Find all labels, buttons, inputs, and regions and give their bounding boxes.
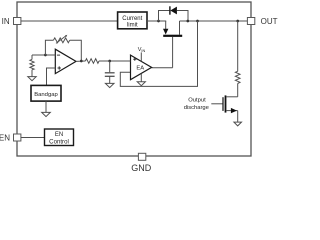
svg-text:EN: EN bbox=[0, 134, 10, 143]
label Output discharge bbox=[184, 98, 209, 111]
ground at Q2 bbox=[234, 122, 242, 126]
svg-text:Bandgap: Bandgap bbox=[34, 92, 58, 98]
wire U1 non-inverting input from bandgap bbox=[47, 68, 56, 85]
svg-text:discharge: discharge bbox=[184, 105, 209, 111]
wire Q2 source to ground bbox=[237, 111, 239, 123]
wire gate of discharge FET bbox=[211, 103, 223, 105]
svg-text:EN: EN bbox=[55, 132, 63, 138]
discharge transistor Q2 (NMOS) bbox=[223, 95, 238, 113]
ground at R1 bbox=[28, 77, 36, 81]
wire current limit to pass FET source bbox=[147, 20, 166, 22]
svg-text:Output: Output bbox=[188, 98, 206, 104]
svg-text:VIN: VIN bbox=[138, 47, 146, 53]
wire IN rail bbox=[21, 20, 118, 22]
outer boundary bbox=[17, 2, 251, 156]
node on IN rail (diode tap) bbox=[157, 20, 160, 23]
feedback trim resistor R3 bbox=[45, 35, 81, 61]
wire feedback from OUT to EA inverting input bbox=[120, 21, 197, 86]
svg-text:EA: EA bbox=[136, 66, 144, 72]
svg-text:Control: Control bbox=[49, 138, 69, 145]
ground at C1 bbox=[105, 83, 114, 87]
wire inverting input of U1 bbox=[32, 54, 55, 56]
label Vin over EA with stub bbox=[138, 47, 146, 61]
block Current limit bbox=[118, 12, 147, 29]
node U1 output bbox=[80, 60, 83, 63]
pin OUT bbox=[247, 17, 277, 26]
op-amp U1 (bandgap buffer) bbox=[55, 49, 76, 73]
wire OUT rail bbox=[180, 20, 248, 22]
svg-text:GND: GND bbox=[131, 163, 152, 173]
wire diode right leg bbox=[177, 11, 188, 22]
wire diode left leg bbox=[159, 11, 170, 22]
capacitor C1 bbox=[105, 61, 115, 83]
ground at EA bbox=[137, 74, 145, 86]
svg-text:IN: IN bbox=[2, 17, 10, 26]
svg-text:limit: limit bbox=[127, 23, 138, 29]
node feedback tap bbox=[196, 20, 199, 23]
node discharge resistor tap bbox=[236, 20, 239, 23]
wire EN pin to EN control bbox=[21, 137, 45, 139]
diode D1 (body diode) bbox=[170, 6, 177, 14]
block EN Control bbox=[45, 129, 74, 146]
resistor R4 (discharge) bbox=[235, 21, 240, 97]
ground at Bandgap bbox=[42, 101, 51, 117]
op-amp U2 error amplifier EA bbox=[131, 55, 152, 80]
node filter cap tap bbox=[108, 60, 111, 63]
pass transistor Q1 (PMOS) bbox=[163, 21, 182, 68]
svg-text:OUT: OUT bbox=[261, 17, 278, 26]
pin IN bbox=[2, 17, 21, 26]
pin EN bbox=[0, 134, 21, 143]
svg-text:Current: Current bbox=[122, 16, 142, 22]
wire R2 to EA non-inverting input bbox=[99, 60, 131, 62]
wire U1 output bbox=[76, 60, 85, 62]
pin GND bbox=[131, 153, 152, 173]
resistor R1 to ground bbox=[30, 55, 34, 77]
wire EA output to gate bbox=[152, 67, 173, 69]
block Bandgap bbox=[31, 85, 61, 101]
resistor R2 (filter) bbox=[85, 59, 99, 64]
node U1 inverting input bbox=[44, 54, 47, 57]
node diode right on rail bbox=[186, 20, 189, 23]
